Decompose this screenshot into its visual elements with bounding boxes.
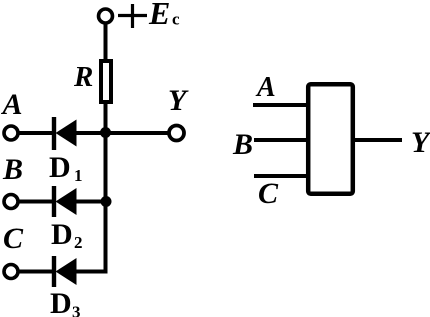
diode D3 [54,256,77,287]
wire Ec to resistor [104,23,108,61]
wire gate input C [254,174,308,178]
wire D1 to Y [76,131,168,135]
svg-text:C: C [3,222,24,255]
resistor R [101,61,111,102]
label +Ec [118,0,180,31]
label D1 [49,151,83,185]
svg-text:Y: Y [411,126,430,159]
svg-text:C: C [258,177,279,210]
node B junction [101,196,112,207]
wire gate output Y [353,138,402,142]
wire B to D2 [18,200,52,204]
terminal B [4,195,18,209]
svg-text:Y: Y [168,84,189,117]
svg-text:A: A [255,72,276,103]
svg-text:B: B [232,128,253,161]
svg-text:B: B [2,153,23,186]
terminal +Ec [99,9,113,23]
svg-text:D: D [50,287,72,317]
diode D1 [54,117,77,150]
svg-text:R: R [73,61,93,93]
svg-text:3: 3 [72,303,81,317]
diode D2 [54,186,77,217]
wire C to D3 [18,270,52,274]
wire vertical bus [104,133,108,272]
terminal A [4,126,18,140]
label D3 [50,287,81,317]
svg-text:E: E [148,0,170,31]
svg-text:1: 1 [74,166,83,185]
svg-text:2: 2 [74,233,83,252]
wire gate input A [253,103,308,107]
svg-text:D: D [49,151,71,184]
wire D2 to bus [76,200,106,204]
svg-text:c: c [172,10,180,29]
svg-text:D: D [51,218,73,251]
label D2 [51,218,83,252]
gate box U1 [308,84,353,194]
node A junction [100,127,111,138]
wire resistor to node A [104,102,108,133]
terminal C [4,265,18,279]
wire A to D1 [18,131,52,135]
wire D3 elbow to bus [76,270,108,274]
svg-text:A: A [1,88,23,121]
terminal Y [169,126,184,141]
wire gate input B [254,138,308,142]
